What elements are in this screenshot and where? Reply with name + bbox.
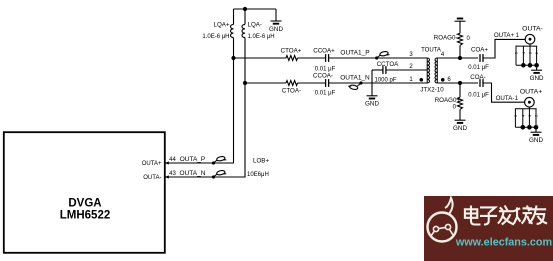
ground GND (top bus) [269,21,283,33]
svg-text:ROAG0-: ROAG0- [434,34,458,41]
label COA+ [471,47,488,54]
svg-text:1000 pF: 1000 pF [374,77,396,83]
pin number 6 [447,77,451,83]
wire N-row left [245,82,286,84]
ground GND (ROAG0- top, flipped) [455,19,466,22]
junction top bus / LQA- [243,7,247,11]
value COA- 0.01 uF [468,93,489,99]
label JTX2-10 [420,87,444,94]
svg-text:0.01 μF: 0.01 μF [315,91,336,97]
svg-text:OUTA+: OUTA+ [494,32,515,39]
svg-text:ROAG0+: ROAG0+ [435,97,461,104]
svg-text:0.01 μF: 0.01 μF [468,65,489,71]
capacitor COA- [480,79,483,87]
watermark url text [455,237,552,249]
value CCOA+ 0.01 uF [315,67,336,73]
resistor CTOA- [286,81,298,86]
wire COA- to OUTA- jack [483,83,525,102]
svg-text:CTOA+: CTOA+ [281,48,302,55]
label COA- [470,74,485,81]
watermark chinese text [465,206,547,225]
label CCOA+ [313,48,335,55]
wire bottom jack gnd stub [535,127,537,132]
capacitor CCOA+ [326,54,329,62]
value ROAG0+ 0 [453,105,457,111]
wire secondary top (pin4) [437,57,478,59]
net label OUTA- 1 [496,95,519,102]
junction node N-row / LQA- vertical [243,81,247,85]
svg-text:OUTA_N: OUTA_N [180,170,206,177]
svg-text:LQA+: LQA+ [214,22,230,29]
svg-text:LOB+: LOB+ [253,157,269,164]
pin 44 name OUTA+ [142,161,162,167]
label OUTA1_P [340,49,369,56]
ground GND (ROAG0+) [453,120,467,132]
svg-text:GND: GND [269,26,283,33]
net label OUTA+ 1 [494,32,520,39]
value ROAG0- 0 [467,36,471,42]
ground GND (CCTOA) [365,96,379,108]
wire GND stub top [275,9,277,21]
svg-text:44: 44 [169,157,176,163]
svg-text:OUTA-: OUTA- [143,175,161,181]
label LOB+ [253,157,269,164]
IC U1 DVGA LMH6522 [4,132,165,253]
label CCTOA [377,61,399,68]
svg-text:GND: GND [365,101,379,108]
value CCTOA 1000 pF [374,77,396,83]
label CTOA+ [281,48,302,55]
label CCOA- [313,73,333,80]
pin number 1 [409,77,413,83]
junction pin6 / ROAG0+ [458,81,462,85]
wire pin2 left [372,69,383,71]
svg-text:CCTOA: CCTOA [377,61,399,68]
resistor ROAG0- [458,33,463,45]
value COA+ 0.01 uF [468,65,489,71]
svg-text:OUTA1_N: OUTA1_N [340,74,370,81]
ground GND (bottom jack) [529,132,543,144]
wire LQA- top segment [244,9,246,24]
pin number 43 [169,171,176,177]
inductor LQA+ [230,24,233,37]
pin number 3 [409,52,413,58]
connector OUTA+ (bottom SMA jack) [513,97,539,129]
label ROAG0+ [435,97,461,104]
wire secondary bottom (pin6) [437,82,478,84]
wire LQA+ top segment [233,9,235,24]
svg-text:GND: GND [529,137,543,144]
wire N-row mid [298,82,326,84]
phase dot secondary [441,78,445,82]
svg-text:43: 43 [169,171,176,177]
wire P-row right [329,57,428,59]
svg-text:1.0E-6 μH: 1.0E-6 μH [248,34,275,40]
label TOUTA [421,47,441,53]
pin 43 name OUTA- [143,175,161,181]
wire COA+ to OUTA+ jack [483,39,525,58]
svg-text:GND: GND [453,125,467,132]
svg-text:0.01 μF: 0.01 μF [468,93,489,99]
capacitor COA+ [480,54,483,62]
svg-text:COA+: COA+ [471,47,488,54]
pin 44 marker [165,161,169,164]
svg-text:CCOA+: CCOA+ [313,48,335,55]
transformer TOUTA secondary winding [435,58,437,83]
svg-text:LQA-: LQA- [248,22,262,29]
capacitor CCTOA [383,66,386,74]
value LQA- 1.0E-6 uH [248,34,275,40]
label CTOA- [282,87,301,94]
node OUTA_P flag [212,156,226,165]
node OUTA1_P flag [375,51,389,60]
pin number 2 [409,64,413,70]
junction pin4 / ROAG0- [458,56,462,60]
svg-text:www.elecfans.com: www.elecfans.com [455,237,552,249]
label ROAG0- [434,34,458,41]
value LOB+ 10E6 uH [247,172,269,178]
watermark elecfans logo box [424,196,553,261]
wire CCTOA gnd vertical [371,70,373,96]
label LQA+ [214,22,230,29]
pin 43 marker [165,175,169,178]
node OUTA_N flag [212,170,226,179]
svg-text:COA-: COA- [470,74,485,81]
svg-text:CTOA-: CTOA- [282,87,301,94]
pin number 4 [441,52,445,58]
svg-text:OUTA_P: OUTA_P [180,156,206,163]
capacitor CCOA- [326,79,329,87]
svg-text:OUTA1_P: OUTA1_P [340,49,369,56]
wire P-row left [234,57,287,59]
transformer TOUTA primary winding [427,58,429,83]
svg-text:1.0E-6 μH: 1.0E-6 μH [202,34,229,40]
wire ROAG0- vertical [459,21,461,58]
connector OUTA- (top SMA jack) [514,34,540,67]
wire ROAG0+ vertical [459,83,461,120]
resistor CTOA+ [286,56,298,61]
svg-text:OUTA+: OUTA+ [142,161,162,167]
svg-text:CCOA-: CCOA- [313,73,333,80]
wire top jack gnd stub [536,65,538,70]
wire pin2 right [386,69,427,71]
net label OUTA_N [180,170,206,177]
svg-text:OUTA-: OUTA- [522,26,543,33]
wire P-row mid [298,57,326,59]
wire OUTA_N net (pin43 to LQA-/CTOA- node) [165,38,245,177]
resistor ROAG0+ [458,97,463,109]
label LQA- [248,22,262,29]
junction node P-row / LQA+ vertical [231,56,235,60]
net label OUTA_P [180,156,206,163]
wire top bus [234,8,277,10]
label OUTA1_N [340,74,370,81]
wire N-row right [329,82,428,84]
pin number 44 [169,157,176,163]
label OUTA- (top jack name) [522,26,543,33]
svg-text:JTX2-10: JTX2-10 [420,87,444,94]
svg-text:GND: GND [530,75,544,82]
wire OUTA_P net (pin44 to LQA+/CTOA+ node) [165,38,234,163]
svg-text:TOUTA: TOUTA [421,47,441,53]
svg-text:DVGA: DVGA [68,198,101,210]
node OUTA1_N flag [348,81,362,90]
phase dot primary [420,78,424,82]
svg-text:LMH6522: LMH6522 [60,210,111,222]
ground GND (top jack) [530,70,544,82]
svg-text:OUTA+: OUTA+ [520,89,542,96]
value LQA+ 1.0E-6 uH [202,34,229,40]
inductor LQA- [242,24,245,37]
svg-text:OUTA-: OUTA- [496,95,515,102]
label OUTA+ (bottom jack name) [520,89,542,96]
svg-text:10E6μH: 10E6μH [247,172,269,178]
value CCOA- 0.01 uF [315,91,336,97]
